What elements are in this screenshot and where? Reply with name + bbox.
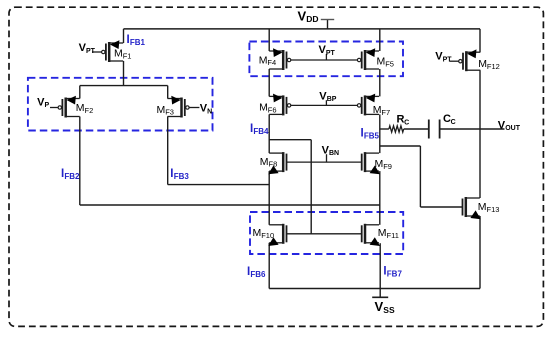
svg-text:V: V [298,8,307,23]
svg-text:M: M [373,104,382,116]
svg-text:C: C [451,119,456,126]
svg-text:F11: F11 [387,231,399,240]
svg-text:FB6: FB6 [250,270,266,279]
svg-text:M: M [259,54,268,66]
svg-text:M: M [478,201,487,213]
svg-text:M: M [259,102,268,114]
svg-text:FB4: FB4 [253,127,269,136]
svg-text:V: V [375,299,384,314]
svg-text:F4: F4 [267,58,276,67]
svg-text:PT: PT [86,48,96,55]
svg-text:M: M [378,227,387,239]
svg-text:N: N [207,108,212,115]
svg-text:M: M [157,104,166,116]
svg-text:F6: F6 [268,105,277,114]
svg-text:F10: F10 [261,231,274,240]
svg-text:M: M [76,102,85,114]
svg-text:FB7: FB7 [387,269,403,278]
svg-text:P: P [45,102,50,109]
svg-text:DD: DD [306,14,318,24]
svg-text:PT: PT [443,57,453,64]
svg-text:F5: F5 [385,59,394,68]
svg-text:FB2: FB2 [64,172,80,181]
svg-text:F1: F1 [123,51,132,60]
svg-text:F9: F9 [383,162,392,171]
svg-text:FB1: FB1 [130,38,146,47]
svg-text:FB5: FB5 [364,131,380,140]
svg-text:F2: F2 [85,106,94,115]
svg-text:M: M [260,156,269,168]
svg-text:BP: BP [327,96,337,103]
svg-text:M: M [478,58,487,70]
svg-text:M: M [377,56,386,68]
svg-text:M: M [114,47,123,59]
svg-text:F12: F12 [487,62,500,71]
svg-text:F3: F3 [165,108,174,117]
svg-text:M: M [375,158,384,170]
svg-text:F8: F8 [269,160,278,169]
svg-text:C: C [404,120,409,127]
svg-text:BN: BN [329,150,339,157]
svg-text:SS: SS [383,305,395,315]
svg-text:FB3: FB3 [174,172,190,181]
svg-text:OUT: OUT [505,125,521,132]
svg-text:M: M [253,227,262,239]
svg-text:F13: F13 [487,205,500,214]
svg-text:F7: F7 [381,108,390,117]
svg-text:PT: PT [326,50,336,57]
